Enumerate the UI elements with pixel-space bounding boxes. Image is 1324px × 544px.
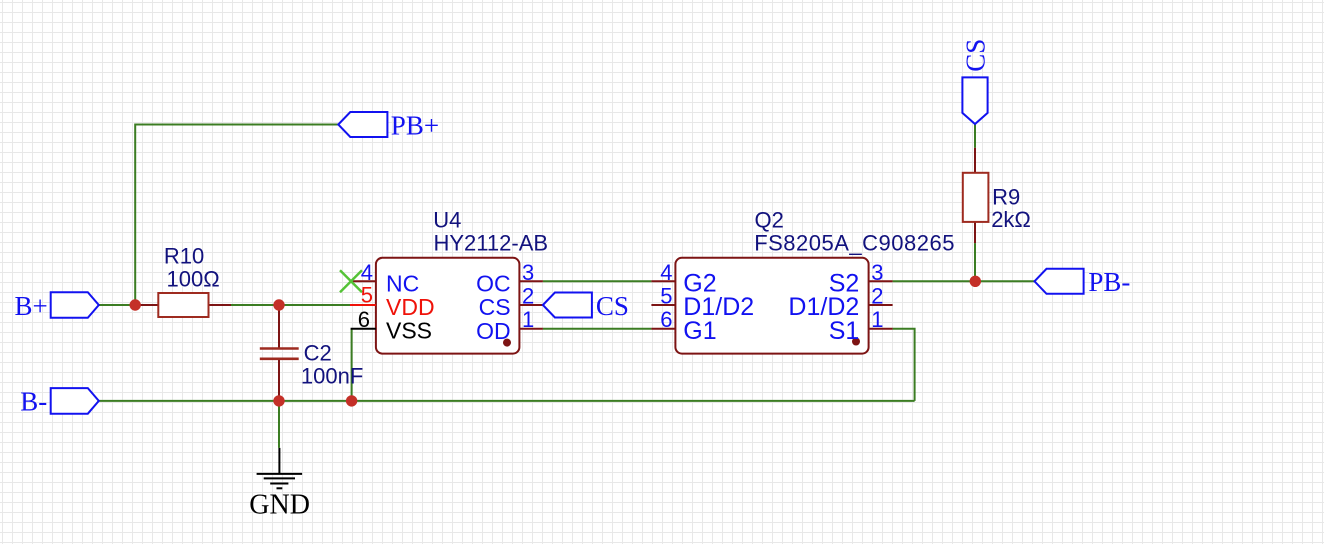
wire GND drop (278, 401, 280, 448)
capacitor C2 (260, 305, 363, 401)
port CS top (961, 39, 991, 124)
svg-text:2: 2 (522, 284, 534, 309)
junction VSS B- (346, 395, 357, 406)
port PB+ (338, 110, 439, 140)
wire R10 to VDD (231, 304, 351, 306)
U4 pin 6 VSS (351, 307, 432, 344)
svg-text:NC: NC (386, 270, 419, 296)
svg-text:PB+: PB+ (391, 110, 439, 140)
U4 pin 4 NC (352, 260, 419, 297)
ground (249, 448, 310, 521)
junction C2 top (273, 299, 284, 310)
Q2 pin 3 S2 (829, 260, 893, 298)
wire B- run (99, 400, 914, 402)
svg-text:CS: CS (596, 291, 629, 321)
Q2 pin 6 G1 (651, 307, 716, 345)
svg-text:Q2: Q2 (755, 208, 784, 233)
resistor R10 (135, 243, 231, 317)
svg-text:FS8205A_C908265: FS8205A_C908265 (754, 231, 955, 256)
svg-text:6: 6 (660, 307, 672, 332)
junction B+ node (130, 299, 141, 310)
port B+ (15, 291, 99, 321)
port B- (20, 387, 99, 417)
svg-text:VDD: VDD (386, 294, 435, 320)
svg-text:100nF: 100nF (301, 364, 363, 389)
svg-text:CS: CS (479, 294, 511, 320)
svg-text:B+: B+ (15, 291, 48, 321)
svg-text:OC: OC (476, 270, 511, 296)
U4 pin 2 CS (479, 284, 543, 321)
svg-text:B-: B- (20, 387, 47, 417)
svg-text:C2: C2 (304, 340, 332, 365)
svg-text:4: 4 (361, 260, 373, 285)
junction R9 PB- (970, 276, 981, 287)
Q2 pin 2 D1/D2 (788, 284, 892, 322)
svg-text:CS: CS (961, 39, 991, 72)
wire S1 to B- (893, 329, 915, 401)
svg-text:100Ω: 100Ω (167, 266, 220, 291)
svg-text:S1: S1 (829, 317, 860, 345)
Q2 pin 5 D1/D2 (651, 284, 754, 322)
svg-text:2kΩ: 2kΩ (991, 207, 1031, 232)
svg-text:R9: R9 (992, 185, 1020, 210)
wire OC to G2 (543, 280, 652, 282)
svg-text:2: 2 (871, 284, 883, 309)
Q2 pin 4 G2 (651, 260, 716, 298)
svg-text:R10: R10 (164, 243, 204, 268)
svg-text:4: 4 (660, 260, 672, 285)
svg-text:G1: G1 (683, 317, 716, 345)
Q2 pin 1 S1 (829, 307, 893, 345)
svg-text:VSS: VSS (386, 318, 432, 344)
wire B+ to junction (99, 304, 135, 306)
svg-text:1: 1 (871, 307, 883, 332)
wire OD to G1 (543, 328, 652, 330)
svg-text:5: 5 (361, 283, 373, 308)
wire VSS drop (351, 329, 353, 401)
svg-text:5: 5 (660, 284, 672, 309)
svg-text:6: 6 (358, 307, 370, 332)
port CS mid (543, 291, 629, 321)
no-connect X on pin 4 (340, 270, 362, 292)
svg-text:U4: U4 (433, 208, 461, 233)
op-amp U4 body (376, 208, 548, 354)
svg-text:1: 1 (522, 307, 534, 332)
junction C2 bottom (273, 395, 284, 406)
resistor R9 (963, 148, 1031, 243)
svg-text:PB-: PB- (1088, 267, 1130, 297)
wire R9 to PB- net (974, 243, 976, 281)
svg-text:GND: GND (249, 490, 310, 521)
transistor Q2 body (675, 208, 955, 354)
svg-text:3: 3 (871, 260, 883, 285)
svg-text:OD: OD (476, 318, 511, 344)
U4 pin 5 VDD (350, 283, 435, 320)
svg-text:3: 3 (522, 260, 534, 285)
wire CS to R9 (974, 124, 976, 148)
U4 pin 1 OD (476, 307, 543, 344)
wire S2 to PB- (893, 280, 1035, 282)
svg-text:HY2112-AB: HY2112-AB (434, 231, 549, 256)
U4 pin 3 OC (476, 260, 543, 297)
wire PB+ branch (135, 125, 338, 306)
port PB- (1035, 267, 1131, 297)
